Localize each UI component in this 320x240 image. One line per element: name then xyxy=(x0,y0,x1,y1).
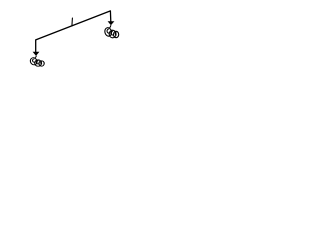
coil cluster left xyxy=(29,56,44,67)
arrowhead left xyxy=(33,52,40,56)
node tick xyxy=(71,18,74,26)
arrowhead right xyxy=(108,21,115,25)
coil cluster right xyxy=(104,25,119,38)
wire xyxy=(36,11,111,52)
